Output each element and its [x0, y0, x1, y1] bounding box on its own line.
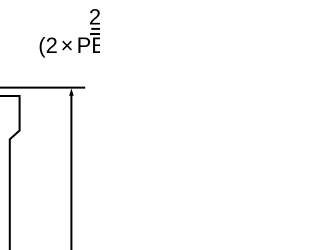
part top edge (horizontal) [0, 87, 85, 89]
svg-text:PE: PE [77, 33, 100, 58]
underline (not-to-scale mark) under "2" [91, 28, 102, 30]
arrowhead pointing up [69, 88, 74, 95]
dimension line (vertical) [70, 92, 72, 250]
stepped wall profile: step edge, vertical edge, chamfer, lower wall edge [0, 96, 20, 250]
svg-text:(2: (2 [38, 33, 58, 58]
svg-text:2: 2 [89, 5, 100, 30]
svg-text:×: × [61, 33, 74, 58]
overline over "E" [90, 33, 102, 35]
